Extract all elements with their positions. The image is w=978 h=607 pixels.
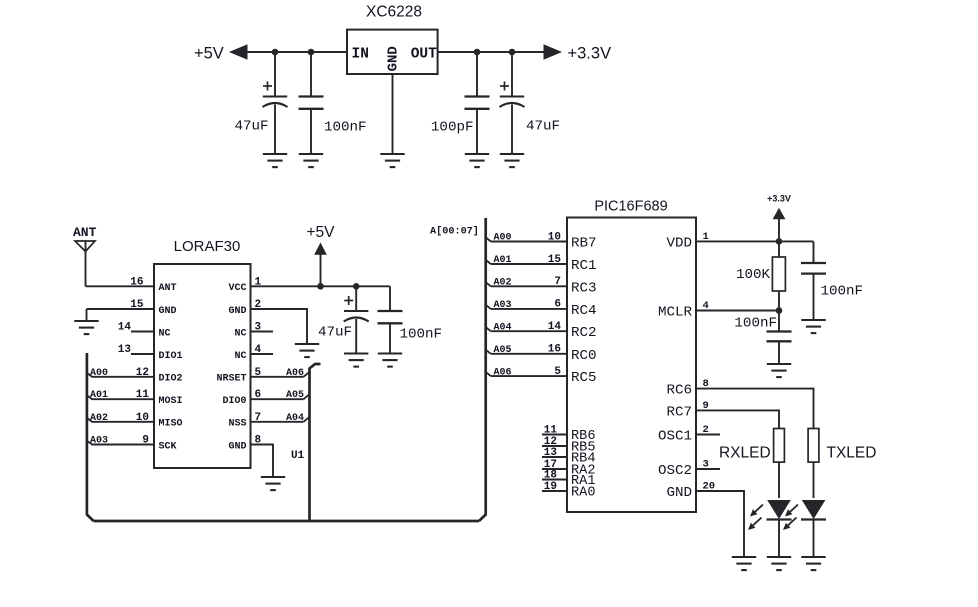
wire RC7 to R2	[696, 410, 779, 428]
wire MCLR net	[696, 310, 779, 312]
svg-text:RC0: RC0	[571, 348, 597, 364]
svg-text:NC: NC	[234, 328, 246, 339]
svg-text:LORAF30: LORAF30	[174, 238, 241, 255]
arrow LED D2 upper	[785, 505, 798, 517]
svg-text:A02: A02	[90, 413, 108, 424]
capacitor C1 47uF polarized	[263, 82, 288, 108]
wire D1 to ground	[778, 520, 780, 558]
svg-text:A02: A02	[494, 278, 512, 289]
ground C8	[801, 320, 825, 333]
arrow +3.3V pointing up	[773, 208, 786, 220]
junction node VDD	[776, 238, 783, 245]
bus entry A03 right	[486, 305, 491, 309]
bus A[00:07] left vertical	[87, 353, 94, 521]
wire LORAF30 pin 11 MOSI	[92, 398, 155, 400]
ground C7	[767, 364, 791, 377]
wire C3 to ground	[476, 109, 478, 154]
svg-text:GND: GND	[228, 441, 246, 452]
wire C7 to ground	[778, 341, 780, 364]
ground LORAF30 pin15	[74, 321, 98, 334]
svg-text:100K: 100K	[736, 267, 771, 283]
svg-text:7: 7	[554, 276, 561, 288]
wire +3.3V rail right	[438, 51, 546, 53]
svg-text:TXLED: TXLED	[827, 445, 877, 462]
svg-text:16: 16	[548, 344, 561, 356]
svg-text:10: 10	[548, 231, 561, 243]
wire LORAF30 pin 13 DIO1	[131, 353, 154, 355]
svg-text:47uF: 47uF	[318, 325, 352, 341]
resistor R2 RXLED	[774, 429, 785, 463]
svg-text:DIO2: DIO2	[159, 374, 183, 385]
svg-text:A[00:07]: A[00:07]	[430, 226, 479, 238]
module U1 LORAF30 body	[154, 264, 251, 468]
svg-text:RC3: RC3	[571, 280, 597, 296]
svg-text:PIC16F689: PIC16F689	[594, 199, 667, 215]
svg-text:MCLR: MCLR	[658, 305, 693, 321]
wire A05 to PIC pin 16	[491, 353, 567, 355]
wire VDD to C8	[813, 241, 815, 263]
svg-text:RXLED: RXLED	[719, 445, 771, 462]
svg-text:13: 13	[544, 447, 558, 459]
svg-text:5: 5	[554, 366, 561, 378]
svg-text:A04: A04	[494, 322, 512, 333]
wire C1 to ground	[274, 105, 276, 155]
svg-text:A01: A01	[494, 255, 512, 266]
svg-text:VDD: VDD	[666, 235, 692, 251]
junction node C5/VCC	[353, 283, 360, 290]
svg-text:13: 13	[118, 344, 132, 356]
svg-text:A06: A06	[494, 367, 512, 378]
capacitor C3 100pF	[465, 97, 490, 109]
svg-text:+5V: +5V	[306, 224, 335, 241]
svg-text:GND: GND	[666, 485, 692, 501]
wire VCC to C6	[389, 286, 391, 311]
resistor R1 100K	[772, 257, 785, 291]
arrow LED D1 lower	[748, 518, 762, 531]
wire PIC pin 13 stub	[542, 456, 567, 458]
svg-text:+3.3V: +3.3V	[568, 45, 612, 63]
svg-text:A05: A05	[494, 345, 512, 356]
ground D2	[801, 557, 825, 570]
antenna symbol	[75, 241, 95, 286]
capacitor C6 100nF	[378, 311, 403, 323]
svg-text:GND: GND	[228, 306, 246, 317]
svg-text:NC: NC	[159, 328, 171, 339]
ground LORAF30 pin8	[261, 477, 285, 490]
bus entry A05 right	[486, 350, 491, 354]
wire OSC1 stub	[696, 434, 720, 436]
wire pin8 GND	[251, 445, 274, 478]
junction node C3/rail	[474, 49, 481, 56]
svg-text:A06: A06	[286, 368, 304, 379]
svg-text:16: 16	[130, 276, 143, 288]
capacitor C2 100nF	[299, 97, 324, 109]
wire R3 to D2	[813, 462, 815, 498]
ground C3	[465, 154, 489, 167]
bus entry A06 right	[486, 372, 491, 376]
svg-text:+3.3V: +3.3V	[767, 194, 791, 204]
svg-text:ANT: ANT	[159, 283, 177, 294]
wire pin5 to bus A06	[251, 376, 304, 378]
wire C5 to ground	[355, 319, 357, 354]
wire VDD to R1	[778, 241, 780, 257]
bus entry A05 mid	[304, 395, 309, 399]
wire R1 to MCLR	[778, 291, 780, 311]
svg-text:OSC1: OSC1	[658, 429, 692, 445]
ground LORAF30 pin2	[295, 344, 319, 357]
wire LORAF30 pin 9 SCK	[92, 444, 155, 446]
wire PIC pin 17 stub	[542, 468, 567, 470]
svg-text:NRSET: NRSET	[216, 374, 246, 385]
svg-text:RC6: RC6	[666, 383, 692, 399]
arrow LED D2 lower	[783, 518, 797, 531]
junction node C4/rail	[509, 49, 516, 56]
wire pin15 GND down	[86, 309, 88, 321]
svg-text:100nF: 100nF	[324, 120, 367, 136]
junction node C2/rail	[308, 49, 315, 56]
svg-text:A05: A05	[286, 390, 304, 401]
wire R2 to D1	[778, 462, 780, 498]
bus entry A01	[87, 395, 92, 399]
wire regulator GND pin	[392, 74, 394, 154]
capacitor C7 100nF	[767, 332, 792, 342]
ground C4	[500, 154, 524, 167]
wire +5V arrow to VCC	[320, 253, 322, 286]
svg-text:RC4: RC4	[571, 303, 597, 319]
wire rail to C3	[476, 52, 478, 97]
svg-text:+5V: +5V	[194, 45, 224, 63]
svg-text:ANT: ANT	[73, 225, 97, 240]
wire LORAF30 pin 10 MISO	[92, 421, 155, 423]
wire PIC pin 12 stub	[542, 445, 567, 447]
svg-text:SCK: SCK	[159, 441, 177, 452]
wire pin7 to bus A04	[251, 421, 304, 423]
wire A03 to PIC pin 6	[491, 308, 567, 310]
svg-text:VCC: VCC	[228, 283, 246, 294]
svg-text:MOSI: MOSI	[159, 396, 183, 407]
ground C5	[344, 354, 368, 367]
ground PIC pin20	[732, 557, 756, 570]
wire PIC pin 11 stub	[542, 434, 567, 436]
wire pin6 to bus A05	[251, 398, 304, 400]
svg-text:OUT: OUT	[411, 47, 437, 63]
svg-text:DIO0: DIO0	[222, 396, 246, 407]
wire C4 to ground	[511, 105, 513, 155]
junction node +5V/VCC	[317, 283, 324, 290]
LED D2 TX	[801, 500, 826, 520]
svg-text:18: 18	[544, 470, 558, 482]
svg-text:DIO1: DIO1	[159, 351, 183, 362]
wire PIC pin 19 stub	[542, 490, 567, 492]
bus entry A03	[87, 441, 92, 445]
svg-text:A04: A04	[286, 413, 304, 424]
svg-text:12: 12	[136, 367, 149, 379]
wire OSC2 stub	[696, 468, 720, 470]
svg-text:14: 14	[548, 321, 562, 333]
svg-text:U1: U1	[291, 450, 305, 462]
capacitor C8 100nF	[801, 263, 826, 274]
wire A06 to PIC pin 5	[491, 375, 567, 377]
svg-text:10: 10	[136, 412, 149, 424]
svg-text:A00: A00	[494, 233, 512, 244]
svg-text:MISO: MISO	[159, 419, 183, 430]
wire LORAF30 pin 14 NC	[131, 331, 154, 333]
ground C2	[299, 154, 323, 167]
svg-text:NC: NC	[234, 351, 246, 362]
svg-text:RC1: RC1	[571, 258, 597, 274]
svg-text:RC5: RC5	[571, 370, 597, 386]
wire pin4 NC stub	[251, 353, 274, 355]
svg-text:XC6228: XC6228	[366, 4, 422, 21]
svg-text:GND: GND	[159, 306, 177, 317]
svg-text:11: 11	[136, 389, 150, 401]
resistor R3 TXLED	[808, 429, 819, 463]
bus entry A00	[87, 373, 92, 377]
bus A[00:07] right vertical	[479, 218, 486, 521]
svg-text:14: 14	[118, 322, 132, 334]
svg-text:100nF: 100nF	[821, 284, 864, 300]
ground regulator	[380, 154, 404, 167]
wire +3.3V arrow to VDD	[778, 218, 780, 241]
svg-text:RC2: RC2	[571, 325, 597, 341]
wire LORAF30 pin 12 DIO2	[92, 376, 155, 378]
svg-text:100nF: 100nF	[734, 316, 777, 332]
regulator U2 XC6228 body	[347, 30, 438, 74]
svg-text:9: 9	[142, 435, 149, 447]
bus entry A04 right	[486, 327, 491, 331]
ground D1	[767, 557, 791, 570]
wire A02 to PIC pin 7	[491, 285, 567, 287]
bus entry A02 right	[486, 282, 491, 286]
svg-text:19: 19	[544, 481, 557, 493]
wire rail to C4	[511, 52, 513, 97]
wire LORAF30 pin 15 GND	[87, 308, 155, 310]
svg-text:RC7: RC7	[666, 404, 692, 420]
svg-text:A03: A03	[494, 300, 512, 311]
bus A[04:06] middle vertical	[310, 364, 321, 521]
wire +5V rail left	[246, 51, 347, 53]
wire C2 to ground	[310, 109, 312, 154]
wire LORAF30 pin 16 ANT	[86, 285, 155, 287]
wire A01 to PIC pin 15	[491, 263, 567, 265]
arrow +5V pointing left	[229, 44, 248, 60]
wire VCC net pin1	[251, 285, 391, 287]
capacitor C4 47uF polarized	[500, 82, 525, 108]
svg-text:15: 15	[130, 299, 144, 311]
arrow LED D1 upper	[750, 505, 763, 517]
svg-text:A00: A00	[90, 368, 108, 379]
svg-text:11: 11	[544, 425, 558, 437]
bus entry A02	[87, 418, 92, 422]
wire VDD net	[696, 240, 814, 242]
wire pin3 NC stub	[251, 331, 274, 333]
wire A04 to PIC pin 14	[491, 330, 567, 332]
svg-text:RA0: RA0	[571, 486, 595, 501]
ground C6	[378, 354, 402, 367]
svg-text:GND: GND	[386, 46, 402, 71]
bus A[00:07] bottom horizontal	[94, 520, 480, 523]
junction node C1/rail	[272, 49, 279, 56]
bus entry A04 mid	[304, 417, 309, 421]
wire C8 to ground	[813, 274, 815, 320]
svg-text:47uF: 47uF	[234, 119, 268, 135]
bus entry A00 right	[486, 238, 491, 242]
wire VCC to C5	[355, 286, 357, 311]
svg-text:A01: A01	[90, 390, 108, 401]
wire GND pin20	[696, 491, 744, 557]
arrow +5V pointing up	[314, 243, 327, 255]
capacitor C5 47uF polarized	[344, 296, 369, 322]
LED D1 RX	[767, 500, 792, 520]
wire PIC pin 18 stub	[542, 479, 567, 481]
svg-text:A03: A03	[90, 436, 108, 447]
wire rail to C1	[274, 52, 276, 97]
ground C1	[263, 154, 287, 167]
bus entry A01 right	[486, 260, 491, 264]
wire MCLR to C7	[778, 311, 780, 332]
svg-text:OSC2: OSC2	[658, 463, 692, 479]
svg-text:15: 15	[548, 254, 562, 266]
svg-text:100nF: 100nF	[400, 327, 443, 343]
svg-text:47uF: 47uF	[526, 119, 560, 135]
svg-text:100pF: 100pF	[431, 120, 474, 136]
mcu U3 PIC16F689 body	[567, 218, 696, 513]
wire C6 to ground	[389, 323, 391, 353]
wire RC6 to R3	[696, 389, 814, 429]
wire A00 to PIC pin 10	[491, 241, 567, 243]
svg-text:RB7: RB7	[571, 236, 597, 252]
wire rail to C2	[310, 52, 312, 97]
arrow +3.3V pointing right	[544, 44, 563, 60]
wire D2 to ground	[813, 520, 815, 558]
svg-text:NSS: NSS	[228, 419, 246, 430]
svg-text:IN: IN	[352, 47, 369, 63]
svg-text:6: 6	[554, 299, 561, 311]
wire pin2 GND	[251, 309, 308, 344]
bus entry A06 mid	[304, 372, 309, 376]
junction node MCLR	[776, 307, 783, 314]
